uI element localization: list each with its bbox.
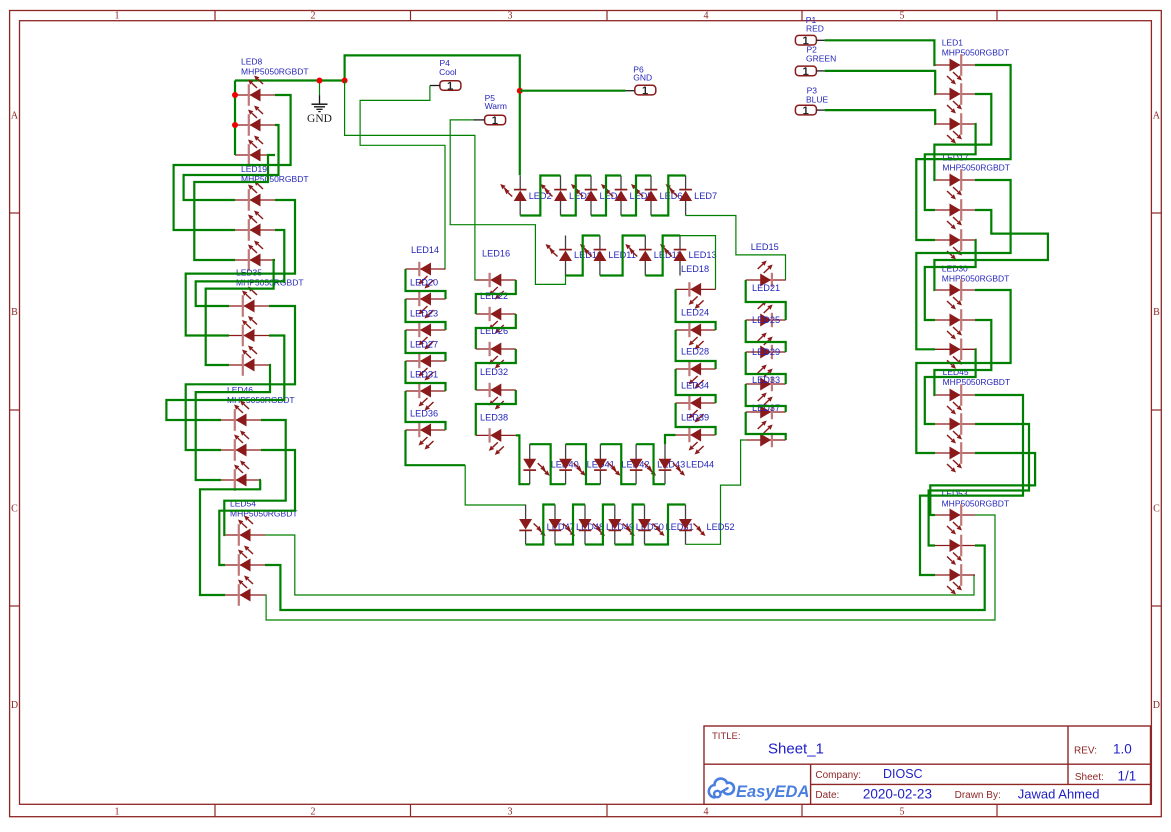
svg-text:LED52: LED52 (707, 522, 735, 532)
svg-text:REV:: REV: (1074, 746, 1097, 757)
svg-text:A: A (1153, 111, 1161, 122)
wire LED54.B long bottom 3 (265, 515, 995, 620)
svg-text:LED37: LED37 (752, 403, 780, 413)
svg-text:LED27: LED27 (410, 340, 438, 350)
wire LED54.R long bottom 1 (265, 535, 975, 595)
wire LED33 to LED37 (746, 412, 786, 440)
wire LED35.B to LED46.B (196, 365, 270, 480)
wire P4 net to LED14 (360, 86, 445, 270)
svg-text:1: 1 (115, 807, 120, 818)
svg-text:LED23: LED23 (410, 309, 438, 319)
svg-text:1: 1 (115, 11, 120, 22)
svg-text:DIOSC: DIOSC (883, 767, 923, 781)
wire GND stub to ground symbol (319, 81, 321, 96)
svg-text:LED16: LED16 (482, 249, 510, 259)
wire LED42 to LED43 (600, 444, 636, 484)
svg-text:LED15: LED15 (751, 242, 779, 252)
diode LED50 (614, 530, 616, 545)
wire P1 stub (816, 39, 824, 41)
diode LED48 (554, 530, 556, 545)
diode LED49 (584, 530, 586, 545)
svg-text:Warm: Warm (485, 101, 507, 111)
wire LED1.G to LED17.R (934, 94, 991, 180)
diode LED35.B (229, 364, 269, 366)
svg-text:Sheet:: Sheet: (1075, 772, 1104, 783)
wire LED8.G to LED19.R (184, 125, 279, 200)
wire LED3 to LED4 (561, 176, 592, 216)
svg-text:LED39: LED39 (681, 413, 709, 423)
diode LED30.B (935, 348, 975, 350)
svg-text:LED45: LED45 (943, 367, 969, 377)
svg-text:LED29: LED29 (752, 347, 780, 357)
wire LED19.R to LED35.G (186, 200, 295, 336)
wire LED17.B to LED30.G (925, 240, 976, 320)
wire GND branch to LED16 (345, 81, 476, 281)
diode LED17.B (935, 239, 975, 241)
junction dot GND-2 (342, 78, 348, 84)
diode LED36 (406, 429, 446, 431)
diode LED17.R (935, 179, 975, 181)
svg-text:MHP5050RGBDT: MHP5050RGBDT (241, 67, 309, 77)
wire LED1.B to LED17.G (925, 124, 976, 210)
wire LED14 to LED20 (406, 269, 446, 299)
svg-text:Jawad Ahmed: Jawad Ahmed (1018, 787, 1100, 802)
wire LED30.B to LED45.G (925, 349, 976, 424)
svg-text:LED8: LED8 (241, 57, 263, 67)
diode LED3 (560, 176, 562, 191)
svg-text:B: B (11, 307, 18, 318)
diode LED30.G (935, 319, 975, 321)
svg-text:3: 3 (508, 807, 513, 818)
frame tick marks (214, 11, 216, 21)
diode LED33 (746, 411, 786, 413)
wire LED30.G to LED45.R (934, 320, 991, 395)
ground symbol GND (319, 95, 321, 104)
svg-text:LED36: LED36 (410, 409, 438, 419)
svg-text:LED46: LED46 (227, 385, 253, 395)
diode LED38 (476, 434, 516, 436)
wire LED47 to LED48 (526, 505, 555, 545)
diode LED5 (620, 176, 622, 191)
diode LED16 (476, 279, 516, 281)
diode LED44 (664, 469, 666, 484)
wire LED13 to LED18 (680, 236, 716, 290)
wire LED8.R to LED19.G (174, 95, 291, 230)
svg-text:MHP5050RGBDT: MHP5050RGBDT (942, 274, 1010, 284)
svg-text:1.0: 1.0 (1113, 742, 1132, 757)
svg-text:GND: GND (307, 113, 332, 125)
wire LED1.R to LED17.B (916, 65, 1010, 240)
diode LED32 (476, 389, 516, 391)
diode LED47 (525, 530, 527, 545)
wire LED17.R to LED30.B (916, 180, 1010, 349)
wire LED8 common left (234, 81, 236, 156)
junction dot GND-1 (317, 78, 323, 84)
diode LED35.R (229, 305, 269, 307)
svg-text:B: B (1153, 307, 1160, 318)
wire LED36 to LED47 b (465, 465, 525, 505)
diode LED52 (685, 530, 687, 545)
wire LED12 to LED13 (645, 236, 680, 276)
wire LED40 to LED41 (530, 444, 566, 484)
diode LED31 (406, 390, 446, 392)
svg-text:5: 5 (900, 807, 905, 818)
diode LED14 (406, 268, 446, 270)
diode LED51 (644, 530, 646, 545)
diode LED18 (676, 288, 716, 290)
svg-text:LED38: LED38 (480, 412, 508, 422)
wire LED39 to LED44 (665, 435, 676, 444)
svg-text:MHP5050RGBDT: MHP5050RGBDT (942, 162, 1010, 172)
diode LED19.R (235, 199, 275, 201)
svg-text:Sheet_1: Sheet_1 (768, 741, 824, 758)
diode LED45.B (935, 452, 975, 454)
diode LED17.G (935, 209, 975, 211)
wire LED51 to LED52 (645, 505, 686, 545)
diode LED34 (676, 402, 716, 404)
svg-text:LED44: LED44 (686, 460, 714, 470)
wire LED2 to LED3 (520, 176, 560, 216)
junction dot LED8 pin1 (232, 92, 238, 98)
wire LED22 to LED26 (476, 314, 516, 349)
wire LED49 to LED50 (585, 505, 615, 545)
wire LED30.R to LED45.B (916, 290, 1010, 453)
wire LED46.B to LED54.B (200, 480, 261, 595)
svg-text:MHP5050RGBDT: MHP5050RGBDT (943, 377, 1011, 387)
svg-text:LED20: LED20 (410, 278, 438, 288)
svg-text:4: 4 (704, 11, 709, 22)
wire LED24 to LED28 (676, 330, 716, 369)
diode LED39 (676, 434, 716, 436)
svg-text:A: A (11, 111, 19, 122)
wire LED45.B to LED53.R (930, 453, 1035, 515)
wire LED20 to LED23 (406, 299, 446, 330)
wire LED38 to LED40 (516, 435, 530, 484)
diode LED40 (529, 469, 531, 484)
wire LED11 to LED12 (600, 236, 645, 276)
svg-text:LED25: LED25 (752, 315, 780, 325)
svg-text:LED34: LED34 (681, 381, 709, 391)
diode LED35.G (229, 335, 269, 337)
wire LED34 to LED39 (676, 403, 716, 435)
svg-text:Company:: Company: (815, 770, 861, 781)
wire LED43 to LED44 (636, 444, 665, 484)
svg-text:MHP5050RGBDT: MHP5050RGBDT (942, 47, 1010, 57)
svg-text:GND: GND (633, 73, 652, 83)
diode LED11 (599, 236, 601, 251)
connector P6 (635, 85, 656, 95)
diode LED15 (746, 279, 786, 281)
connector P1 (795, 35, 816, 45)
wire LED41 to LED42 (566, 444, 601, 484)
wire LED36 to LED47 a (406, 430, 466, 465)
svg-text:TITLE:: TITLE: (712, 731, 741, 742)
diode LED41 (565, 469, 567, 484)
diode LED53.B (935, 574, 975, 576)
svg-text:LED24: LED24 (681, 308, 709, 318)
wire LED6 to LED7 (651, 176, 686, 216)
svg-text:Drawn By:: Drawn By: (955, 790, 1001, 801)
svg-text:LED22: LED22 (480, 291, 508, 301)
connector P2 (795, 66, 816, 76)
svg-text:LED6: LED6 (660, 191, 683, 201)
diode LED29 (746, 383, 786, 385)
wire LED5 to LED6 (621, 176, 651, 216)
diode LED45.R (935, 394, 975, 396)
svg-text:Cool: Cool (439, 67, 457, 77)
diode LED6 (650, 176, 652, 191)
wire LED21 to LED25 (746, 320, 786, 352)
wire LED8.B to LED19.B (194, 155, 275, 260)
svg-text:LED31: LED31 (410, 370, 438, 380)
wire P2 stub (816, 70, 824, 72)
wire LED26 to LED32 (476, 349, 516, 390)
diode LED2 (519, 176, 521, 191)
wire P6 stub (626, 90, 635, 92)
diode LED26 (476, 348, 516, 350)
wire P6 net (520, 90, 626, 92)
svg-text:4: 4 (704, 807, 709, 818)
wire LED35.R to LED46.G (186, 306, 295, 450)
wire LED45.G to LED53.G (929, 424, 1029, 546)
diode LED8.G (235, 124, 275, 126)
wire LED19.G to LED35.R (196, 230, 285, 306)
diode LED10 (565, 236, 567, 251)
wire LED54.G long bottom 2 (265, 546, 985, 611)
diode LED46.R (221, 419, 261, 421)
wire LED35.G to LED46.R (166, 336, 284, 421)
diode LED37 (746, 439, 786, 441)
diode LED19.G (235, 229, 275, 231)
wire LED28 to LED34 (676, 369, 716, 403)
svg-text:C: C (1153, 504, 1160, 515)
diode LED24 (676, 329, 716, 331)
diode LED46.B (221, 479, 261, 481)
wire LED23 to LED27 (406, 330, 446, 361)
svg-text:RED: RED (806, 24, 824, 34)
svg-text:LED13: LED13 (689, 250, 717, 260)
svg-text:BLUE: BLUE (806, 94, 829, 104)
diode LED8.R (235, 94, 275, 96)
wire LED17.G to LED30.R (934, 210, 1048, 290)
svg-text:LED14: LED14 (411, 245, 439, 255)
svg-text:EasyEDA: EasyEDA (736, 783, 809, 801)
diode LED28 (676, 368, 716, 370)
svg-text:D: D (11, 700, 18, 711)
wire LED27 to LED31 (406, 361, 446, 391)
wire GND net LED8 top (235, 79, 345, 81)
wire LED18 to LED24 (676, 289, 716, 330)
svg-text:1/1: 1/1 (1118, 769, 1137, 784)
diode LED43 (635, 469, 637, 484)
svg-text:C: C (11, 504, 18, 515)
title block frame (704, 726, 1151, 804)
wire LED45.R to LED53.B (920, 395, 1023, 575)
wire LED46.R to LED54.R (224, 420, 285, 535)
diode LED7 (685, 176, 687, 191)
connector P4 (440, 81, 461, 91)
wire LED46.G to LED54.G (219, 450, 295, 565)
wire LED29 to LED33 (746, 384, 786, 412)
wire LED16 to LED22 (476, 280, 516, 314)
wire LED48 to LED49 (555, 505, 585, 545)
diode LED53.G (935, 545, 975, 547)
svg-text:GREEN: GREEN (806, 54, 836, 64)
diode LED1.G (935, 93, 975, 95)
diode LED54.R (225, 534, 265, 536)
wire P2 to LED1 green (825, 71, 936, 94)
wire P3 to LED1 blue (825, 110, 936, 124)
diode LED13 (679, 236, 681, 251)
diode LED25 (746, 351, 786, 353)
diode LED1.R (935, 64, 975, 66)
diode LED12 (644, 236, 646, 251)
diode LED19.B (235, 259, 275, 261)
svg-text:LED7: LED7 (694, 191, 717, 201)
wire P5 stub (473, 119, 484, 121)
connector P5 (485, 115, 506, 125)
svg-text:LED30: LED30 (942, 264, 968, 274)
wire LED19.B to LED35.B (206, 260, 275, 365)
diode LED1.B (935, 123, 975, 125)
svg-text:MHP5050RGBDT: MHP5050RGBDT (942, 499, 1010, 509)
diode LED27 (406, 360, 446, 362)
wire P1 to LED1 red (825, 40, 936, 65)
wire LED7 to LED15 (686, 216, 786, 281)
wire LED10 to LED11 (566, 236, 600, 276)
diode LED54.B (225, 594, 265, 596)
junction dot LED8 pin2 (232, 122, 238, 128)
wire P5 net to LED10 (450, 120, 565, 285)
svg-text:2: 2 (311, 807, 316, 818)
svg-text:3: 3 (508, 11, 513, 22)
diode LED54.G (225, 564, 265, 566)
wire LED15 to LED21 (746, 280, 786, 320)
wire LED4 to LED5 (591, 176, 621, 216)
svg-text:5: 5 (900, 11, 905, 22)
junction dot P6 branch (517, 88, 523, 94)
diode LED20 (406, 298, 446, 300)
diode LED23 (406, 329, 446, 331)
diode LED4 (590, 176, 592, 191)
svg-text:LED18: LED18 (681, 264, 709, 274)
svg-text:2020-02-23: 2020-02-23 (863, 787, 932, 802)
wire LED31 to LED36 (406, 391, 446, 430)
diode LED45.G (935, 423, 975, 425)
wire LED32 to LED38 (476, 390, 516, 435)
svg-text:2: 2 (311, 11, 316, 22)
wire LED50 to LED51 (615, 505, 645, 545)
diode LED22 (476, 313, 516, 315)
wire LED52 to LED37 (686, 440, 746, 544)
diode LED53.R (935, 514, 975, 516)
diode LED30.R (935, 289, 975, 291)
svg-text:LED33: LED33 (752, 375, 780, 385)
diode LED21 (746, 319, 786, 321)
wire P4 stub (430, 85, 440, 87)
diode LED42 (599, 469, 601, 484)
EasyEDA logo cloud (709, 779, 734, 798)
svg-text:LED32: LED32 (480, 367, 508, 377)
wire P3 stub (816, 109, 824, 111)
wire GND net up-over (345, 55, 520, 175)
svg-text:D: D (1153, 700, 1160, 711)
diode LED46.G (221, 449, 261, 451)
svg-text:Date:: Date: (815, 790, 839, 801)
svg-text:LED28: LED28 (681, 347, 709, 357)
connector P3 (795, 105, 816, 115)
svg-text:LED1: LED1 (942, 37, 964, 47)
svg-text:LED21: LED21 (752, 283, 780, 293)
diode LED8.B (235, 154, 275, 156)
wire LED25 to LED29 (746, 352, 786, 384)
